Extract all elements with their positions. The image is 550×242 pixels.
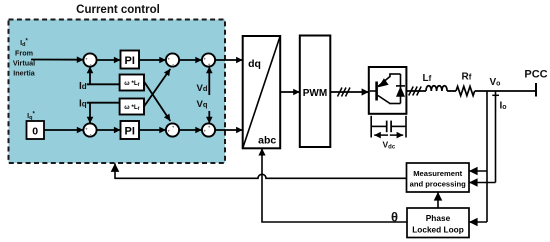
wire: Rf to PCC bus xyxy=(475,90,536,92)
svg-text:+: + xyxy=(168,57,171,62)
svg-text:dq: dq xyxy=(248,58,261,70)
wire: Io sense tap (vertical B) xyxy=(495,91,497,183)
svg-text:+: + xyxy=(204,57,207,62)
inductor Lf xyxy=(423,73,448,91)
wire: S5 to summing node S6 xyxy=(179,129,202,131)
wire: converter output with 3-phase slashes xyxy=(406,87,426,96)
current control dashed container box xyxy=(9,20,226,164)
svg-text:Current control: Current control xyxy=(76,4,160,16)
svg-text:Lf: Lf xyxy=(423,73,432,84)
svg-text:+: + xyxy=(168,129,171,134)
wire: S2 to summing node S3 xyxy=(179,59,202,61)
label Id* From Virtual Inertia xyxy=(13,38,36,78)
svg-text:+: + xyxy=(208,124,211,129)
constant block 0 xyxy=(27,121,45,139)
wire: dq/abc to PWM xyxy=(280,91,300,93)
svg-text:Inertia: Inertia xyxy=(13,69,36,78)
wire: Io tap into Measurement input 2 xyxy=(469,182,496,184)
svg-text:+: + xyxy=(204,129,207,134)
diode (freewheeling) xyxy=(396,74,405,104)
wire: S1 to PI controller (d axis) xyxy=(97,59,121,61)
wire: 0 block to summing node S4 xyxy=(44,129,83,131)
svg-text:Locked Loop: Locked Loop xyxy=(412,225,464,235)
wire: Vo tap into PLL input xyxy=(469,221,487,223)
svg-text:-: - xyxy=(172,62,174,68)
wire: Vo tap into Measurement input 1 xyxy=(469,170,487,172)
summing junction S4 xyxy=(83,123,96,137)
node Vq feed-forward into S6 xyxy=(197,99,210,123)
wire: PWM to converter with 3-phase slashes xyxy=(330,88,369,97)
wire: PI (d axis) to summing node S2 xyxy=(139,59,166,61)
svg-text:Vd: Vd xyxy=(197,83,208,94)
svg-text:Id: Id xyxy=(79,81,87,92)
svg-text:ω *Lf: ω *Lf xyxy=(124,80,140,88)
Measurement and processing block xyxy=(407,163,470,192)
svg-text:ω *Lf: ω *Lf xyxy=(124,104,140,112)
wire: S6 to dq/abc block (Vq* output) xyxy=(215,129,243,131)
wire: reference into summing node S1 xyxy=(31,59,83,61)
wire: upper w*Lf cross-coupling to S5 xyxy=(144,82,170,122)
svg-text:From: From xyxy=(15,49,33,58)
capacitor Vdc with measurement arrow xyxy=(371,116,406,151)
converter (IGBT bridge) box xyxy=(369,67,407,114)
gain block w*Lf (lower) xyxy=(120,99,144,115)
svg-text:Rf: Rf xyxy=(462,72,472,83)
transistor IGBT symbol xyxy=(370,74,401,104)
PI controller (d axis) xyxy=(121,51,140,69)
dq to abc transformation block xyxy=(243,36,281,148)
summing junction S3 xyxy=(202,53,215,67)
node Vo label and polarity tick xyxy=(490,77,501,95)
svg-text:PI: PI xyxy=(124,55,134,67)
title: Current control xyxy=(76,4,160,16)
summing junction S1 xyxy=(83,53,96,67)
svg-text:PI: PI xyxy=(124,126,134,138)
wire: Vo sense tap (vertical A) xyxy=(486,91,488,222)
Phase Locked Loop block xyxy=(407,208,469,238)
svg-text:Iq: Iq xyxy=(79,99,87,110)
wire: S3 to dq/abc block (Vd* output) xyxy=(215,59,243,61)
wire: PI (q axis) to summing node S5 xyxy=(139,129,166,131)
summing junction S6 xyxy=(202,123,215,136)
PWM block xyxy=(300,36,331,148)
resistor Rf xyxy=(456,72,475,96)
svg-text:Measurement: Measurement xyxy=(413,169,462,178)
node Id with feedback tap xyxy=(79,67,120,92)
wire: Measurement output feedback to current control (with hop over theta line) xyxy=(115,163,407,179)
gain block w*Lf (upper) xyxy=(120,75,144,91)
svg-text:PCC: PCC xyxy=(524,69,547,81)
svg-text:+: + xyxy=(208,62,211,67)
summing junction S5 xyxy=(166,123,179,136)
summing junction S2 xyxy=(166,53,179,67)
svg-text:+: + xyxy=(85,57,88,62)
svg-text:-: - xyxy=(90,132,92,138)
label Iq* xyxy=(27,111,35,121)
svg-text:and processing: and processing xyxy=(410,180,466,189)
wire: S4 to PI controller (q axis) xyxy=(97,129,121,131)
svg-text:Vq: Vq xyxy=(197,99,208,110)
svg-text:+: + xyxy=(172,124,175,129)
wire: theta output from PLL to dq/abc block xyxy=(262,148,407,224)
wire: Lf to Rf xyxy=(447,90,456,92)
svg-text:PWM: PWM xyxy=(303,88,327,99)
svg-text:abc: abc xyxy=(258,135,276,147)
svg-text:+: + xyxy=(85,127,88,132)
svg-text:Io: Io xyxy=(500,101,507,112)
wire: lower w*Lf cross-coupling to S2 xyxy=(144,69,170,107)
PCC bus bar xyxy=(524,69,547,97)
svg-text:Vo: Vo xyxy=(490,77,501,88)
svg-text:Vdc: Vdc xyxy=(383,140,396,151)
node Io label xyxy=(500,101,507,112)
PI controller (q axis) xyxy=(121,121,140,139)
svg-text:Phase: Phase xyxy=(426,213,451,223)
node Iq with feedback tap xyxy=(79,99,120,124)
node Vd feed-forward into S3 xyxy=(197,67,210,95)
svg-text:0: 0 xyxy=(32,126,38,138)
wire: PLL to Measurement block xyxy=(437,192,439,208)
